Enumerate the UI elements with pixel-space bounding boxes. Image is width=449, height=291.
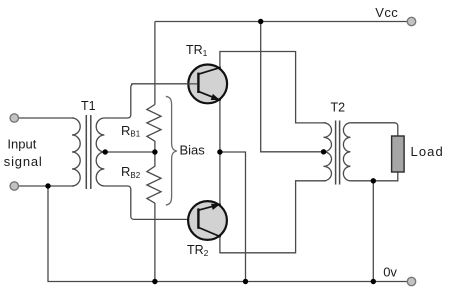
terminal input top (10, 114, 18, 122)
svg-text:T2: T2 (331, 101, 346, 115)
terminal Vcc (407, 17, 415, 25)
wire emitter bus TR1 to TR2 (219, 100, 221, 204)
svg-text:T1: T1 (81, 99, 96, 113)
load resistor (392, 136, 405, 172)
wire load bottom junction to 0v rail (372, 181, 374, 282)
wire emitter bus to 0v rail (220, 152, 246, 282)
svg-text:0v: 0v (383, 265, 397, 280)
node 0v rail junction emitters (243, 279, 248, 284)
svg-text:Input: Input (7, 136, 36, 151)
wire Vcc tap to T2 center tap (261, 22, 324, 152)
wire T1 secondary top to TR1 base (104, 84, 187, 118)
wire T1 secondary bottom to TR2 base (104, 186, 197, 219)
transistor TR1 (188, 65, 227, 104)
transformer T1 secondary winding (96, 118, 104, 186)
node T2 center tap (321, 149, 326, 154)
wire 0v rail (48, 186, 407, 282)
svg-text:Load: Load (411, 144, 444, 159)
terminal 0v (407, 277, 415, 285)
svg-text:Bias: Bias (180, 142, 206, 157)
wire input top to T1 primary (19, 117, 74, 119)
wire Vcc rail down to RB1 (154, 22, 156, 105)
brace bias (166, 96, 177, 205)
transformer T1 core (86, 115, 91, 189)
node 0v rail junction RB2 (152, 279, 157, 284)
transformer T1 primary winding (72, 118, 80, 186)
transformer T2 primary winding (324, 123, 332, 181)
wire TR1 base (131, 83, 198, 85)
wire Vcc rail (155, 21, 407, 23)
svg-text:Vcc: Vcc (375, 5, 398, 20)
node emitter bus junction (217, 149, 222, 154)
node input bottom junction (45, 183, 50, 188)
transistor TR2 (188, 201, 227, 240)
wire T1 center tap to bias divider (105, 151, 155, 153)
node load bottom junction (371, 178, 376, 183)
wire TR2 collector to T2 primary bottom (220, 181, 326, 253)
node 0v rail junction load (371, 279, 376, 284)
transformer T2 secondary winding (343, 123, 350, 181)
svg-text:signal: signal (4, 154, 43, 169)
node bias divider junction (152, 149, 157, 154)
wire T2 secondary top to load (350, 123, 397, 136)
wire input bottom to T1 primary (19, 185, 74, 187)
wire T2 secondary bottom (350, 172, 397, 181)
terminal input bottom (10, 182, 18, 190)
node T1 center tap (103, 149, 108, 154)
node Vcc rail junction (258, 19, 263, 24)
wire TR1 collector to T2 primary top (220, 52, 326, 123)
transformer T2 core (336, 121, 340, 185)
resistor RB2 (147, 152, 161, 282)
resistor RB1 (147, 105, 161, 153)
